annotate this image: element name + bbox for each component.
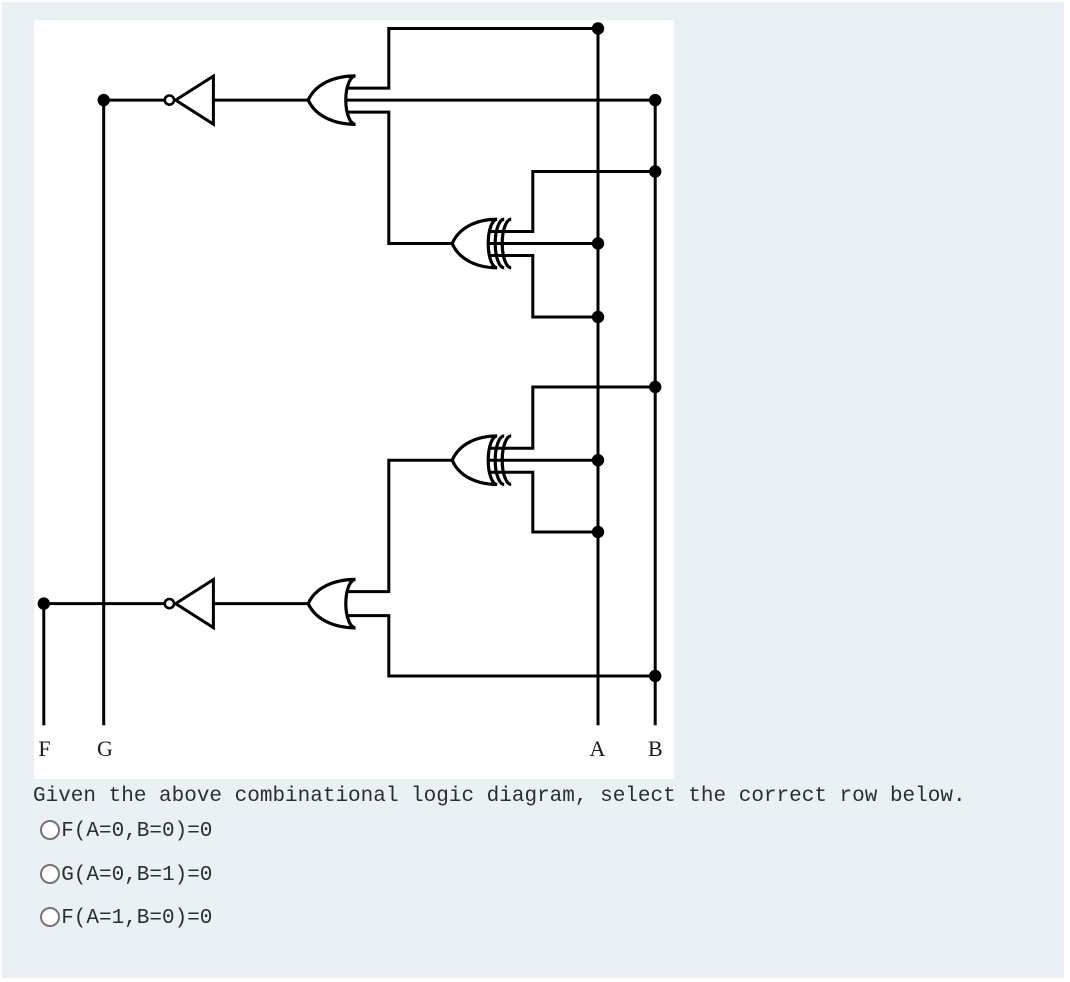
node: B at OR2 bottom input — [649, 669, 661, 681]
node: A at XOR1 middle input — [592, 237, 604, 249]
node: B at XOR1 top input — [649, 165, 661, 177]
wire: G rail vertical — [102, 100, 105, 725]
svg-text:A: A — [590, 736, 606, 761]
wire: XOR2 output down to OR2 top input — [347, 460, 453, 591]
inverter N1 bubble — [165, 95, 174, 104]
node: A top junction — [592, 22, 604, 34]
wire: OR2 output to inverter N2 — [213, 602, 308, 605]
or gate OR1 — [308, 75, 355, 124]
wire: XOR2 bottom input from A rail — [488, 472, 598, 532]
svg-text:F: F — [38, 736, 50, 761]
wire: OR2 bottom input from B rail — [347, 615, 656, 675]
or gate OR2 — [308, 579, 355, 628]
wire: inverter N2 output to F node — [44, 602, 165, 605]
wire: OR1 middle input from B rail — [346, 98, 656, 101]
label: net A — [590, 736, 606, 761]
svg-text:B: B — [648, 736, 663, 761]
wire: XOR1 bottom input from A rail — [488, 255, 598, 317]
wire: B rail vertical — [654, 100, 657, 725]
node: A at XOR2 bottom input — [592, 525, 604, 537]
radio option 3 — [40, 907, 61, 928]
inverter N2 bubble — [165, 599, 174, 608]
wire: F rail vertical — [42, 603, 45, 725]
label: net F — [38, 736, 50, 761]
wire: XOR2 middle input from A rail — [487, 458, 598, 461]
wire: XOR1 middle input from A rail — [487, 242, 598, 245]
label: net B — [648, 736, 663, 761]
node: B at OR1 middle input — [649, 93, 661, 105]
node: A at XOR2 middle input — [592, 454, 604, 466]
wire: inverter N1 to OR1 output — [213, 98, 308, 101]
label: net G — [97, 736, 113, 761]
wire: OR1 top input from A rail (up-over loop) — [347, 28, 599, 88]
node: A at XOR1 bottom input — [592, 310, 604, 322]
wire: G node to inverter N1 input — [104, 98, 165, 101]
svg-text:G: G — [97, 736, 113, 761]
wire: OR1 bottom input from XOR1 output — [347, 112, 453, 243]
node: B at XOR2 top input — [649, 380, 661, 392]
xor gate X1 — [452, 219, 511, 268]
wire: A rail vertical — [597, 28, 600, 725]
inverter N1 triangle — [176, 76, 214, 124]
node: F top junction — [38, 597, 50, 609]
question text — [33, 785, 966, 808]
radio option 1 — [40, 820, 61, 841]
node: G top junction — [98, 93, 110, 105]
wire: XOR2 top input from B rail — [488, 387, 655, 448]
xor gate X2 — [452, 435, 511, 484]
radio option 2 — [40, 864, 61, 885]
wire: XOR1 top input from B rail — [488, 171, 655, 231]
inverter N2 triangle — [176, 579, 214, 627]
